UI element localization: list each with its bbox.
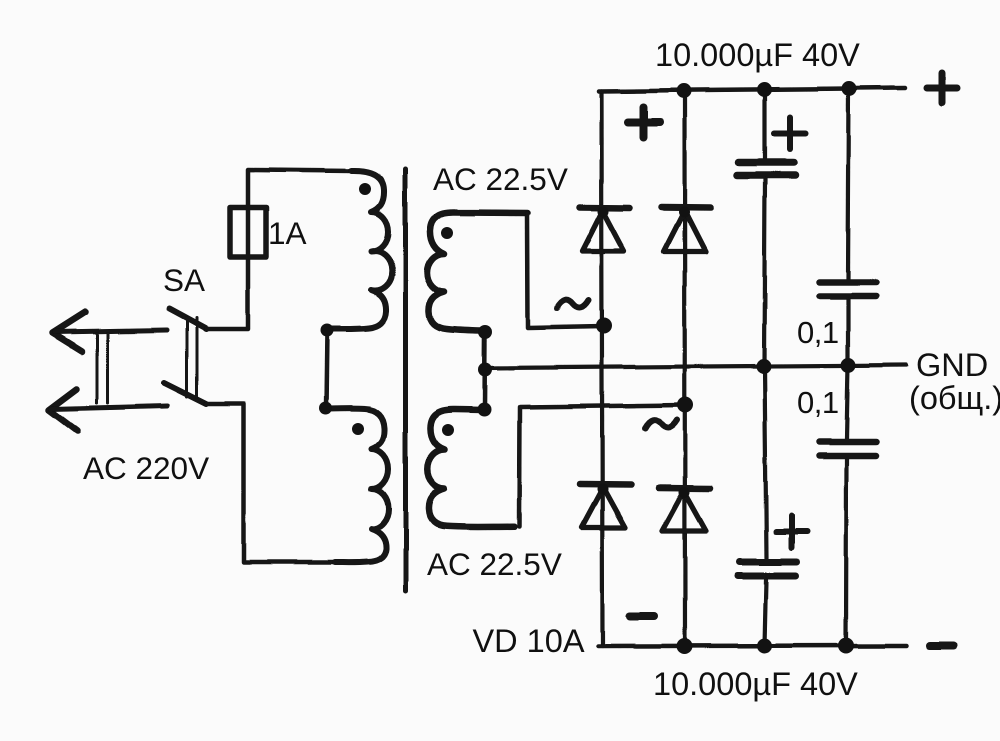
svg-text:SA: SA bbox=[163, 262, 205, 298]
svg-text:(общ.): (общ.) bbox=[909, 380, 1000, 416]
svg-text:AC 22.5V: AC 22.5V bbox=[433, 161, 568, 197]
svg-text:GND: GND bbox=[916, 347, 988, 383]
svg-text:10.000µF 40V: 10.000µF 40V bbox=[653, 666, 858, 702]
svg-text:AC 220V: AC 220V bbox=[83, 450, 209, 486]
svg-text:10.000µF 40V: 10.000µF 40V bbox=[655, 37, 860, 73]
svg-text:AC 22.5V: AC 22.5V bbox=[427, 546, 562, 582]
svg-text:1A: 1A bbox=[268, 215, 307, 251]
svg-text:VD 10A: VD 10A bbox=[473, 623, 585, 659]
svg-text:0,1: 0,1 bbox=[797, 385, 839, 420]
svg-text:0,1: 0,1 bbox=[797, 315, 839, 350]
